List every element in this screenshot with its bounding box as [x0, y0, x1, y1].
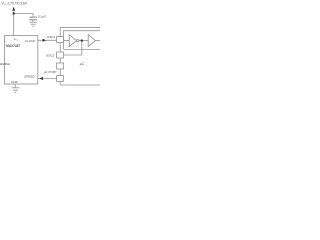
svg-text:CLOCK: CLOCK — [25, 39, 37, 43]
svg-text:OSC2: OSC2 — [46, 53, 55, 57]
svg-text:SPEED: SPEED — [24, 74, 35, 78]
svg-text:0.1µF: 0.1µF — [38, 15, 46, 19]
svg-text:GND: GND — [11, 80, 19, 84]
svg-text:OSC1: OSC1 — [47, 35, 56, 39]
svg-text:µC: µC — [80, 62, 85, 66]
svg-text:MAX7387: MAX7387 — [6, 44, 20, 48]
svg-text:µC PORT: µC PORT — [44, 70, 57, 74]
svg-text:ENABLE: ENABLE — [0, 62, 10, 66]
